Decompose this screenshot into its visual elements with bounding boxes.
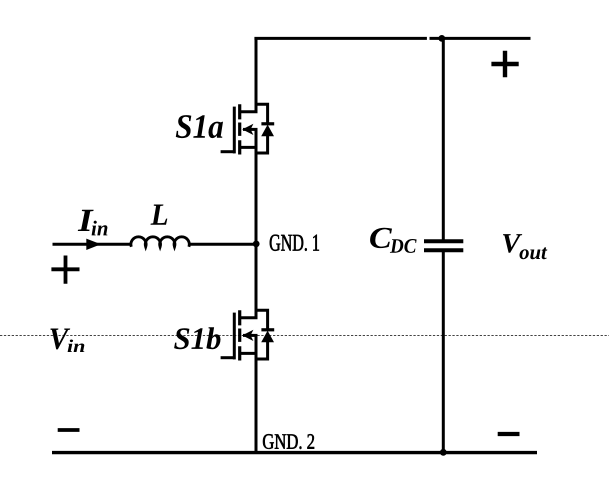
- current arrow Iin: [86, 239, 101, 250]
- capacitor CDC bottom plate: [424, 248, 463, 252]
- node: top bus / capacitor junction dot: [438, 35, 445, 42]
- wire: S1b source down to ground bus: [255, 361, 258, 453]
- S1b source contact: [240, 352, 258, 355]
- S1b source stub: [255, 335, 258, 362]
- label L: [151, 205, 168, 225]
- label GND. 2: [263, 434, 314, 449]
- S1b body diode triangle: [261, 331, 274, 343]
- S1a drain contact: [240, 110, 258, 113]
- S1a source contact: [240, 146, 258, 149]
- S1a body diode triangle: [261, 125, 274, 137]
- wire: node GND.1 down to S1b drain: [255, 244, 258, 318]
- S1a source stub: [255, 129, 258, 156]
- S1a body diode branch: [256, 104, 268, 153]
- S1a body diode cathode bar: [261, 122, 274, 125]
- label GND. 1: [270, 235, 319, 251]
- wire: capacitor branch upper: [442, 38, 445, 239]
- wire: S1a source down to node GND.1: [255, 155, 258, 245]
- node: ground bus / capacitor junction dot: [440, 449, 447, 456]
- input - sign: [58, 428, 80, 432]
- S1b gate lead: [221, 356, 235, 359]
- label Iin: [78, 210, 94, 231]
- input + sign: [51, 256, 79, 284]
- label Vin: [50, 329, 70, 350]
- S1b body diode branch: [256, 310, 268, 359]
- S1a channel dashes: [238, 104, 241, 154]
- wire: input line from + terminal to inductor: [53, 243, 133, 246]
- wire: S1a drain vertical: [255, 37, 258, 112]
- output - sign: [498, 432, 520, 436]
- S1a gate lead: [221, 150, 235, 153]
- node GND.1 junction dot: [253, 241, 260, 248]
- S1b drain contact: [240, 316, 258, 319]
- S1b body arrow: [243, 334, 258, 337]
- transistor S1b: [221, 310, 275, 362]
- S1a body arrow: [243, 128, 258, 131]
- wire: inductor to node GND.1: [189, 243, 256, 246]
- S1b gate bar: [233, 313, 236, 360]
- capacitor CDC top plate: [424, 239, 463, 243]
- wire: bottom ground bus: [52, 451, 537, 454]
- wire: top bus: [254, 37, 530, 40]
- label Vout: [503, 234, 522, 253]
- output + sign: [491, 51, 518, 78]
- label S1a: [176, 115, 223, 138]
- S1a gate bar: [233, 107, 236, 154]
- S1b body diode cathode bar: [261, 328, 274, 331]
- wire: capacitor branch lower: [442, 252, 445, 453]
- zero-reference dotted line: [0, 335, 609, 337]
- inductor L: [131, 237, 189, 247]
- S1b channel dashes: [238, 310, 241, 360]
- transistor S1a: [221, 104, 275, 156]
- label CDC: [370, 228, 392, 248]
- label S1b: [174, 327, 220, 349]
